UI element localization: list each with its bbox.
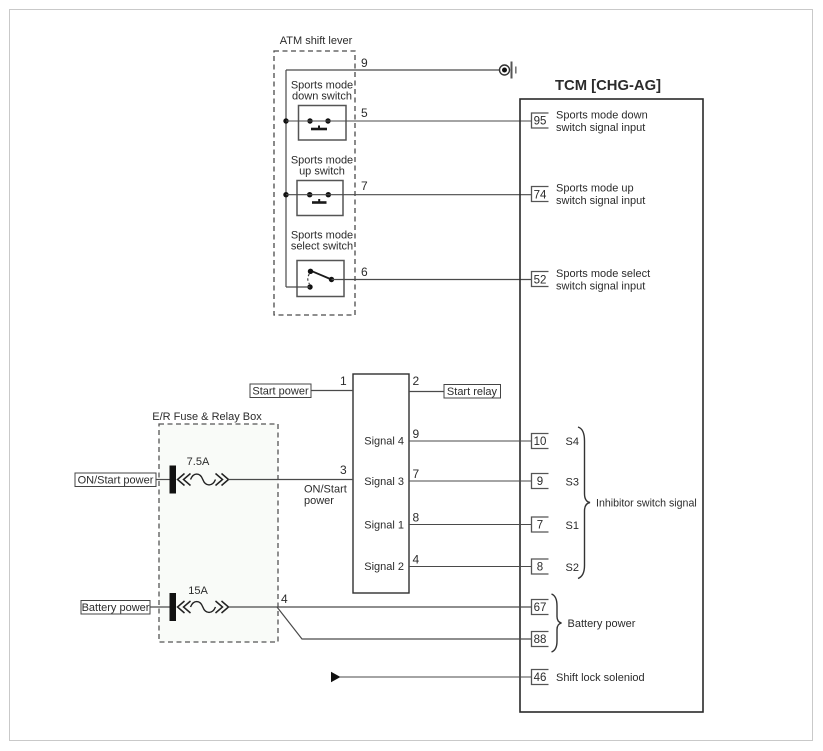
svg-text:5: 5 <box>361 106 368 120</box>
pin 67 <box>532 600 549 615</box>
wire: Battery power to fuse <box>150 606 170 608</box>
switch: Sports mode down switch <box>291 80 353 141</box>
connector box: ATM shift lever (dashed enclosure) <box>274 35 355 315</box>
svg-text:Sports mode up: Sports mode up <box>556 183 634 195</box>
svg-text:Battery power: Battery power <box>568 618 636 630</box>
svg-text:3: 3 <box>340 463 347 477</box>
wire: down switch to TCM pin 95 <box>286 120 532 122</box>
arrow: shift lock solenoid feed <box>331 672 341 682</box>
wire: fuse 7.5A to block pin 3 (ON/Start power) <box>229 479 354 481</box>
svg-text:S4: S4 <box>566 436 579 448</box>
svg-text:95: 95 <box>534 116 547 128</box>
svg-text:4: 4 <box>413 553 420 567</box>
wire: Signal 3 to TCM pin 9 <box>409 480 532 482</box>
svg-text:67: 67 <box>534 602 547 614</box>
svg-text:9: 9 <box>413 427 420 441</box>
svg-text:Signal 2: Signal 2 <box>364 561 404 573</box>
svg-text:6: 6 <box>361 265 368 279</box>
svg-text:ON/Start power: ON/Start power <box>78 475 154 487</box>
pin 8 <box>532 559 579 574</box>
svg-text:S1: S1 <box>566 520 579 532</box>
svg-text:ON/Start: ON/Start <box>304 484 347 496</box>
junction: bus to up switch <box>283 192 288 197</box>
svg-text:switch signal input: switch signal input <box>556 195 645 207</box>
svg-text:7: 7 <box>361 179 368 193</box>
wire: Signal 2 to TCM pin 8 <box>409 566 532 568</box>
svg-text:8: 8 <box>537 562 543 574</box>
wire: switch feed bus <box>285 70 287 287</box>
wire: Start power to block pin 1 <box>311 390 353 392</box>
brace: inhibitor switch signal group <box>578 427 590 579</box>
node: Battery power <box>81 601 150 615</box>
svg-text:S2: S2 <box>566 562 579 574</box>
node: Start relay <box>444 385 501 399</box>
svg-text:Sports mode down: Sports mode down <box>556 110 648 122</box>
svg-text:switch signal input: switch signal input <box>556 122 645 134</box>
wire: ON/Start power to fuse <box>156 479 170 481</box>
svg-text:1: 1 <box>340 374 347 388</box>
svg-text:10: 10 <box>534 436 547 448</box>
svg-text:Signal 1: Signal 1 <box>364 520 404 532</box>
svg-text:Start power: Start power <box>252 386 309 398</box>
svg-text:15A: 15A <box>188 585 208 597</box>
wire: bus elbow into select switch <box>286 286 310 288</box>
svg-text:8: 8 <box>413 511 420 525</box>
pin 10 <box>532 434 579 449</box>
brace: battery power group <box>552 594 562 652</box>
node: ON/Start power <box>75 473 156 487</box>
fuse 7.5A <box>170 456 229 494</box>
svg-text:select switch: select switch <box>291 241 353 253</box>
svg-text:Shift lock soleniod: Shift lock soleniod <box>556 672 645 684</box>
svg-text:S3: S3 <box>566 477 579 489</box>
switch: Sports mode select switch <box>291 230 353 297</box>
wire: arrow to TCM pin 46 <box>340 676 532 678</box>
svg-text:46: 46 <box>534 672 547 684</box>
component: TCM [CHG-AG] <box>520 78 703 712</box>
wire: fuse 15A to TCM pin 67 <box>229 606 532 608</box>
svg-text:power: power <box>304 495 334 507</box>
svg-text:Signal 3: Signal 3 <box>364 476 404 488</box>
svg-text:down switch: down switch <box>292 91 352 103</box>
svg-text:up switch: up switch <box>299 166 345 178</box>
svg-text:9: 9 <box>361 56 368 70</box>
component box: E/R Fuse & Relay Box (dashed) <box>152 411 278 642</box>
wire: pin 9 line to ground <box>286 69 499 71</box>
wire: branch to TCM pin 88 <box>277 607 532 639</box>
svg-text:74: 74 <box>534 190 547 202</box>
component: inhibitor switch signal connector block <box>353 374 409 593</box>
svg-text:2: 2 <box>413 374 420 388</box>
svg-text:7.5A: 7.5A <box>187 456 210 468</box>
svg-text:4: 4 <box>281 592 288 606</box>
wire: block pin 2 to Start relay <box>409 391 444 393</box>
pin 46 <box>532 670 645 685</box>
junction: bus to down switch <box>283 118 288 123</box>
wire: Signal 1 to TCM pin 7 <box>409 524 532 526</box>
pin 7 <box>532 517 579 532</box>
wire: up switch to TCM pin 74 <box>286 194 532 196</box>
svg-text:Signal 4: Signal 4 <box>364 436 404 448</box>
svg-text:Inhibitor switch signal: Inhibitor switch signal <box>596 498 697 510</box>
svg-text:9: 9 <box>537 476 543 488</box>
pin 9 <box>532 474 579 489</box>
pin 95 <box>532 110 648 135</box>
svg-text:52: 52 <box>534 275 547 287</box>
pin 52 <box>532 268 651 293</box>
svg-text:E/R Fuse & Relay Box: E/R Fuse & Relay Box <box>152 411 262 423</box>
svg-text:ATM shift lever: ATM shift lever <box>280 35 353 47</box>
wire: select switch to TCM pin 52 <box>332 279 532 281</box>
svg-text:88: 88 <box>534 634 547 646</box>
pin 88 <box>532 632 549 647</box>
svg-text:Sports mode select: Sports mode select <box>556 268 650 280</box>
wire: Signal 4 to TCM pin 10 <box>409 440 532 442</box>
switch: Sports mode up switch <box>291 155 353 216</box>
svg-text:switch signal input: switch signal input <box>556 281 645 293</box>
pin 74 <box>532 183 646 208</box>
svg-text:Battery power: Battery power <box>82 602 150 614</box>
node: Start power <box>250 384 311 398</box>
net label: ON/Start power <box>304 484 347 508</box>
svg-text:TCM [CHG-AG]: TCM [CHG-AG] <box>555 78 661 94</box>
ground (body ground symbol) <box>500 62 516 79</box>
fuse 15A <box>170 585 229 621</box>
svg-text:7: 7 <box>413 467 420 481</box>
svg-text:Start relay: Start relay <box>447 386 498 398</box>
svg-text:7: 7 <box>537 520 543 532</box>
